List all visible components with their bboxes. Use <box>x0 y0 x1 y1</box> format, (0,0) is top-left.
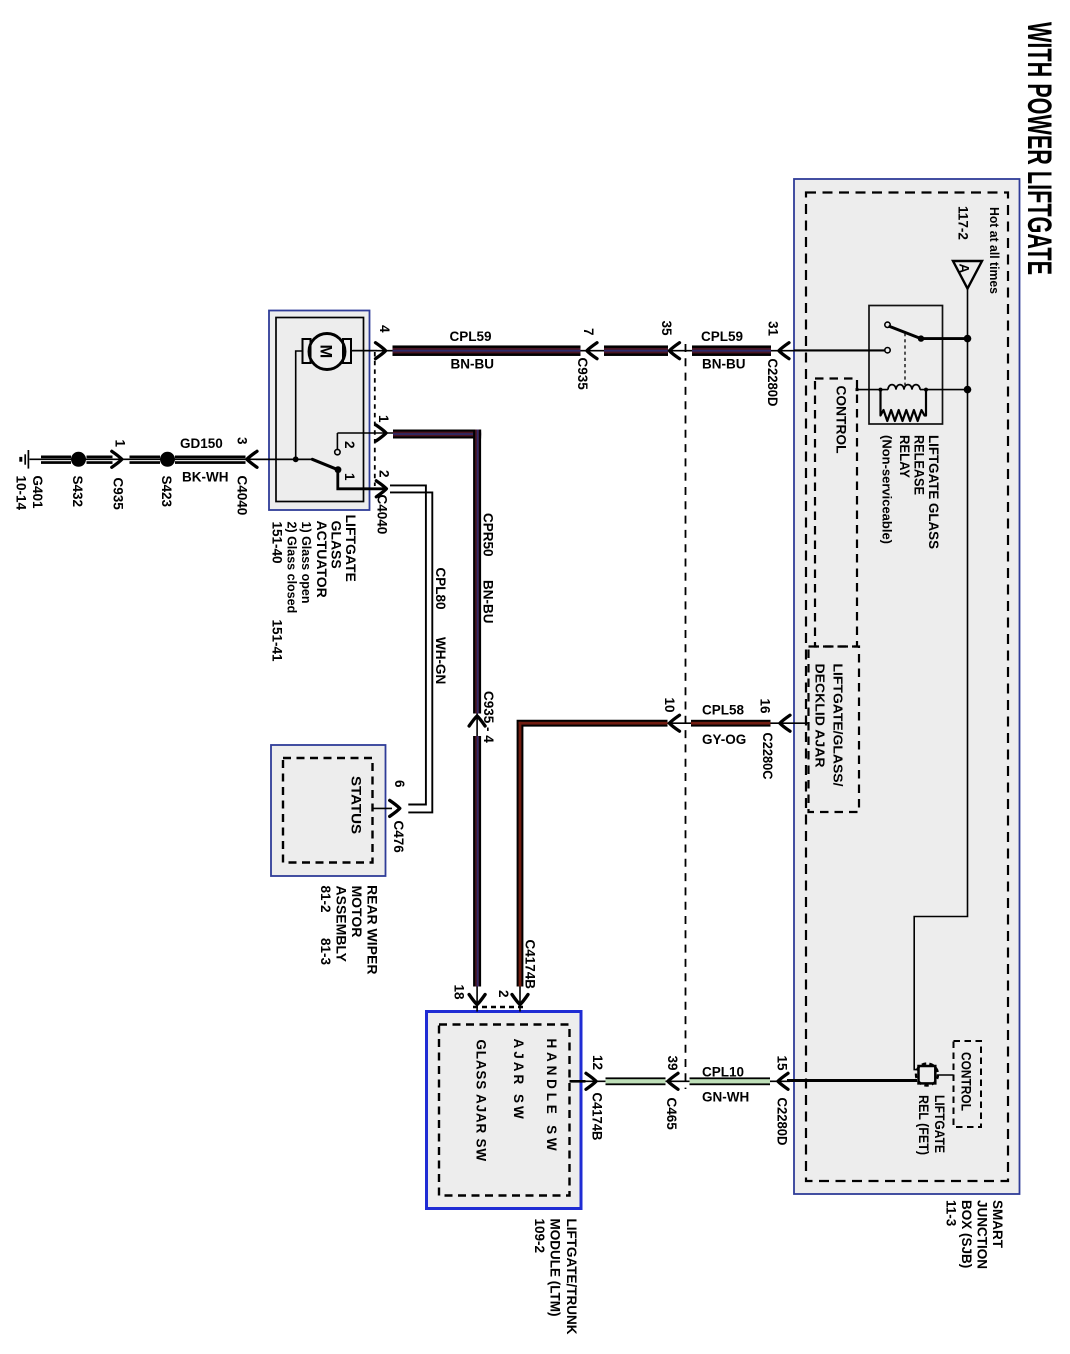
dashed connector line C4040 <box>374 352 376 486</box>
connector C2280D pin 31 arrow <box>779 343 789 359</box>
svg-text:Hot at all times: Hot at all times <box>987 207 1001 294</box>
svg-text:6: 6 <box>392 780 407 788</box>
svg-text:10-14: 10-14 <box>14 476 29 511</box>
wire CPL59 BN-BU band segment 3 <box>692 345 771 356</box>
relay output terminal <box>885 348 890 353</box>
svg-text:REL (FET): REL (FET) <box>916 1095 931 1155</box>
SJB inner dashed border <box>806 193 1008 1182</box>
relay switch common terminal <box>885 322 890 327</box>
pin 1 arrow <box>376 425 386 441</box>
actuator inner solid border <box>276 318 364 502</box>
svg-text:AJAR SW: AJAR SW <box>511 1039 526 1122</box>
svg-text:4: 4 <box>377 325 392 333</box>
svg-text:C935: C935 <box>575 358 590 391</box>
svg-text:GN-WH: GN-WH <box>702 1090 749 1105</box>
svg-text:STATUS: STATUS <box>349 776 364 834</box>
svg-text:16: 16 <box>758 699 773 715</box>
svg-text:35: 35 <box>659 321 674 337</box>
svg-text:CPL10: CPL10 <box>702 1065 744 1080</box>
pin 10 arrow <box>669 715 679 731</box>
wire CPL10 GN-WH band seg1 <box>606 1077 666 1085</box>
svg-text:REAR WIPER: REAR WIPER <box>365 885 381 974</box>
svg-text:GLASS AJAR SW: GLASS AJAR SW <box>474 1040 489 1162</box>
wire battery feed bus inside SJB <box>914 289 967 1070</box>
svg-text:BK-WH: BK-WH <box>182 470 229 485</box>
motor M <box>309 334 345 370</box>
svg-text:31: 31 <box>766 321 781 337</box>
svg-text:81-3: 81-3 <box>318 938 333 966</box>
wire CPL59 BN-BU band segment 2 <box>604 345 668 356</box>
svg-text:15: 15 <box>775 1056 790 1072</box>
pin 18 arrow <box>469 995 485 1005</box>
switch contact 2 circle <box>335 449 340 454</box>
wire BK-WH double band seg2 <box>87 456 113 464</box>
wire CPL10 baseline <box>585 1080 790 1082</box>
wire CPR50 baseline <box>337 433 477 1012</box>
svg-text:C465: C465 <box>664 1098 679 1131</box>
relay coil windings <box>888 385 920 390</box>
svg-text:C2280D: C2280D <box>775 1098 790 1146</box>
svg-text:CONTROL: CONTROL <box>959 1052 974 1111</box>
liftgate trunk module LTM box outline <box>427 1012 582 1209</box>
svg-text:A: A <box>957 264 972 274</box>
CONTROL dashed box (relay coil driver) <box>815 379 857 647</box>
svg-text:1) Glass open: 1) Glass open <box>299 522 313 604</box>
harness boundary dashed line <box>685 344 687 1089</box>
pin 12 arrow <box>586 1073 596 1089</box>
dashed connector line C4174B <box>473 1006 524 1009</box>
svg-text:1: 1 <box>376 415 391 423</box>
wire BK-WH double band seg3 <box>130 456 161 464</box>
svg-text:1: 1 <box>113 440 128 448</box>
relay actuation dashed link <box>904 333 906 385</box>
wire relay output to connector C2280D pin 31 <box>794 349 885 351</box>
svg-text:39: 39 <box>665 1056 680 1071</box>
pin 3 arrow <box>247 451 257 467</box>
svg-text:CPL59: CPL59 <box>701 329 743 344</box>
wire LTM pin 12 stub thick <box>570 1080 586 1083</box>
svg-text:RELAY: RELAY <box>897 435 913 479</box>
svg-text:C935: C935 <box>111 478 126 511</box>
wire FET to CONTROL <box>937 1074 954 1076</box>
svg-text:WH-GN: WH-GN <box>433 637 448 684</box>
svg-text:C2280C: C2280C <box>760 733 775 780</box>
svg-text:C4174B: C4174B <box>590 1093 605 1141</box>
svg-text:M: M <box>317 345 335 359</box>
svg-text:CONTROL: CONTROL <box>834 386 849 454</box>
LIFTGATE/GLASS/DECKLID AJAR dashed box <box>809 647 860 813</box>
connector C935 pin 7 arrow <box>587 343 597 359</box>
svg-text:11-3: 11-3 <box>944 1200 959 1227</box>
svg-text:HANDLE SW: HANDLE SW <box>544 1039 559 1155</box>
svg-text:1: 1 <box>342 473 357 481</box>
motor brush left <box>303 339 311 363</box>
CONTROL dashed box (FET driver) <box>954 1041 982 1127</box>
svg-text:(Non-serviceable): (Non-serviceable) <box>880 435 894 544</box>
pin 6 arrow <box>390 800 400 816</box>
svg-text:ACTUATOR: ACTUATOR <box>314 521 330 598</box>
wire relay contact to bus <box>921 337 966 340</box>
svg-text:2: 2 <box>377 470 392 478</box>
svg-text:G401: G401 <box>30 476 45 510</box>
wire CPR50 BN-BU vertical band lower <box>473 736 481 987</box>
relay coil contact square <box>856 388 859 391</box>
svg-text:18: 18 <box>452 985 467 1001</box>
connector C465 pin 39 arrow <box>668 1073 678 1089</box>
svg-text:109-2: 109-2 <box>532 1219 547 1254</box>
svg-text:C4040: C4040 <box>375 495 390 535</box>
wire contact2 to pin 1 <box>336 433 338 449</box>
relay coil wire <box>858 389 966 391</box>
svg-text:C935 - 4: C935 - 4 <box>481 691 496 743</box>
svg-text:2: 2 <box>496 990 511 998</box>
wire motor to pin 4 <box>351 350 377 352</box>
relay parallel resistor <box>881 390 927 421</box>
svg-text:81-2: 81-2 <box>318 886 333 913</box>
svg-text:10: 10 <box>662 698 677 713</box>
wire CPR50 BN-BU vertical band upper <box>473 430 481 714</box>
svg-text:SMART: SMART <box>990 1200 1005 1249</box>
pin 2 arrow <box>376 481 386 497</box>
wire BK-WH double band seg1 <box>41 456 71 464</box>
svg-text:C2280D: C2280D <box>765 359 780 407</box>
svg-text:LIFTGATE/GLASS/: LIFTGATE/GLASS/ <box>831 664 845 788</box>
splice S432 <box>71 452 86 467</box>
liftgate glass actuator box outline <box>269 311 370 511</box>
svg-text:JUNCTION: JUNCTION <box>975 1200 990 1269</box>
svg-text:CPR50: CPR50 <box>481 513 496 557</box>
wire CPL80 WH-GN double line <box>390 485 426 804</box>
splice S423 <box>160 452 175 467</box>
wire switch common <box>256 458 312 460</box>
wire CPL58 GY-OG horizontal band seg2 <box>691 720 771 727</box>
svg-text:GD150: GD150 <box>180 436 223 451</box>
motor brush right <box>343 339 351 363</box>
fuse symbol 117-2 triangle A <box>953 261 982 289</box>
ground symbol G401 <box>27 450 29 469</box>
wire CPL59 baseline <box>353 350 885 352</box>
svg-text:BOX (SJB): BOX (SJB) <box>959 1200 974 1268</box>
junction bus at relay contact <box>964 335 972 343</box>
connector C2280D pin 15 arrow <box>778 1073 788 1089</box>
svg-text:MODULE (LTM): MODULE (LTM) <box>548 1219 563 1317</box>
svg-text:C476: C476 <box>391 821 406 854</box>
wire CPL58 baseline <box>520 723 809 1011</box>
svg-text:C4040: C4040 <box>235 476 250 516</box>
svg-text:151-41: 151-41 <box>270 620 285 663</box>
smart junction box SJB outline <box>794 179 1020 1194</box>
svg-text:MOTOR: MOTOR <box>349 886 365 938</box>
wire CPR50 BN-BU horizontal band <box>393 430 481 439</box>
junction bus at coil <box>964 386 972 394</box>
wire GD150 BK-WH double band seg4 <box>175 456 246 464</box>
svg-text:CPL58: CPL58 <box>702 703 745 718</box>
LTM inner dashed border <box>439 1025 570 1196</box>
wire wiper status stub <box>372 807 393 809</box>
connector C935-4 arrow <box>469 716 485 726</box>
wire contact1 to pin 2 thick <box>338 470 387 489</box>
svg-text:DECKLID AJAR: DECKLID AJAR <box>813 664 827 768</box>
pin 35 arrow <box>669 343 679 359</box>
svg-text:C4174B: C4174B <box>523 940 538 990</box>
wiper inner dashed border <box>283 758 373 863</box>
connector C2280C pin 16 arrow <box>780 715 790 731</box>
switch arm actuator <box>312 459 338 469</box>
svg-text:2) Glass closed: 2) Glass closed <box>285 522 299 614</box>
svg-text:2: 2 <box>342 441 357 449</box>
svg-text:117-2: 117-2 <box>956 206 971 240</box>
wire CPL58 GY-OG horizontal band seg1 with corner <box>517 720 668 987</box>
svg-text:LIFTGATE: LIFTGATE <box>932 1095 947 1153</box>
liftgate rel FET symbol circle <box>916 1064 938 1086</box>
svg-text:12: 12 <box>590 1055 605 1070</box>
svg-text:7: 7 <box>581 328 596 336</box>
svg-text:BN-BU: BN-BU <box>702 357 746 372</box>
svg-text:CPL80: CPL80 <box>433 568 448 610</box>
relay switch arm <box>890 327 921 339</box>
svg-text:LIFTGATE/TRUNK: LIFTGATE/TRUNK <box>564 1219 579 1335</box>
junction motor-switch <box>293 456 299 462</box>
svg-text:S423: S423 <box>159 476 174 508</box>
svg-text:BN-BU: BN-BU <box>451 357 495 372</box>
svg-text:GY-OG: GY-OG <box>702 732 746 747</box>
relay box outline <box>869 306 943 425</box>
connector C935 pin 1 arrow <box>112 451 122 467</box>
svg-text:151-40: 151-40 <box>270 522 285 564</box>
pin 4 arrow <box>376 343 386 359</box>
wire ground baseline <box>30 458 313 460</box>
wire motor left to switch common <box>296 351 303 459</box>
wire CPL10 GN-WH band seg2 <box>690 1077 771 1085</box>
wire CPL10 inside SJB thick <box>787 1079 917 1082</box>
svg-text:ASSEMBLY: ASSEMBLY <box>334 886 350 963</box>
wire CPL59 BN-BU band segment 1 <box>393 345 581 356</box>
svg-text:3: 3 <box>235 437 250 445</box>
svg-text:WITH POWER LIFTGATE: WITH POWER LIFTGATE <box>1020 22 1058 275</box>
svg-text:CPL59: CPL59 <box>450 329 492 344</box>
FET square <box>919 1066 936 1083</box>
svg-text:BN-BU: BN-BU <box>481 580 496 624</box>
svg-text:S432: S432 <box>70 476 85 508</box>
rear wiper motor assembly box outline <box>271 745 386 876</box>
pin 2 arrow LTM <box>512 995 528 1005</box>
